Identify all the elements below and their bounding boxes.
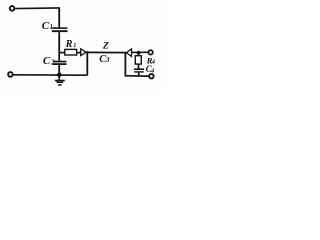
- svg-text:1: 1: [73, 42, 76, 49]
- connector diode triangle left (points right): [81, 49, 87, 56]
- lead C4 to rail: [138, 73, 140, 76]
- svg-text:R: R: [65, 39, 73, 50]
- svg-text:Z: Z: [102, 40, 109, 51]
- lead node to R4: [138, 53, 140, 56]
- wire R1 to triangle: [77, 52, 81, 54]
- connector diode triangle right (points left): [126, 49, 131, 57]
- label R4: [146, 55, 155, 65]
- svg-text:1: 1: [50, 24, 53, 31]
- wire top horizontal: [15, 7, 59, 10]
- capacitor C4: [134, 68, 144, 72]
- label C3: [99, 54, 110, 65]
- capacitor C1: [52, 27, 68, 32]
- input terminal bottom-left: [8, 72, 13, 77]
- svg-text:C: C: [43, 55, 51, 67]
- shield leg left (down from apex, corner to rail): [86, 51, 88, 75]
- output wire right: [131, 51, 148, 53]
- ground: [55, 75, 65, 85]
- node T junction to R1 branch: [59, 52, 65, 54]
- wire vertical lead into C1: [58, 7, 60, 27]
- label C1: [42, 20, 53, 32]
- label R1: [65, 39, 77, 50]
- output terminal top-right: [148, 50, 152, 54]
- bottom rail right: [125, 75, 149, 77]
- junction dot output node: [137, 51, 141, 55]
- output terminal bottom-right: [149, 74, 154, 79]
- bottom rail left: [13, 74, 87, 76]
- svg-text:C: C: [42, 20, 50, 32]
- wire vertical C2 to bottom rail: [58, 65, 60, 75]
- label C4: [146, 64, 155, 74]
- cable wire (Z / C3): [86, 51, 126, 53]
- input terminal top-left: [10, 6, 15, 11]
- shield leg right (down from apex, corner to rail): [124, 53, 126, 75]
- resistor R1 box: [65, 49, 77, 55]
- capacitor C2: [53, 61, 67, 65]
- svg-text:2: 2: [50, 60, 55, 67]
- wire vertical C1 to C2 through node: [58, 32, 60, 61]
- label C2: [43, 55, 55, 67]
- svg-text:3: 3: [105, 57, 110, 64]
- junction dot at C2/ground: [57, 73, 62, 78]
- resistor R4 box (vertical): [135, 56, 141, 64]
- lead R4 to C4: [138, 64, 140, 69]
